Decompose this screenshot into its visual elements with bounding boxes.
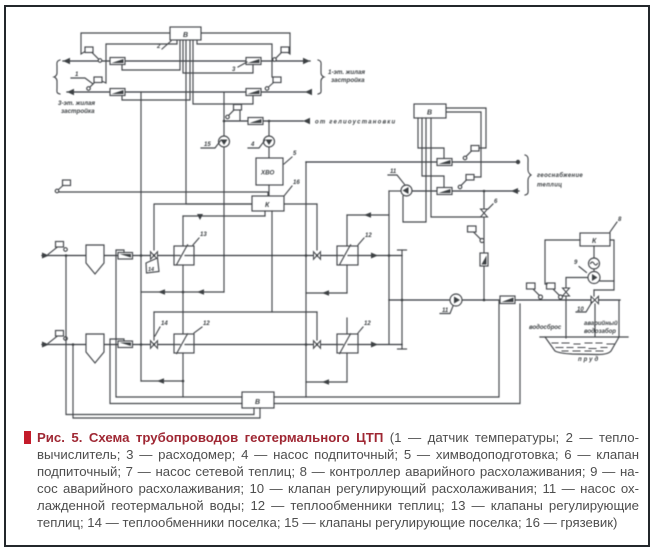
pump 11 cooled geothermal water — [450, 294, 462, 306]
svg-text:8: 8 — [618, 217, 622, 223]
pond basin with water hatching — [540, 337, 628, 355]
svg-text:3-эт. жилая: 3-эт. жилая — [58, 100, 95, 107]
wire: B1 to flowmeter F2 — [183, 40, 253, 73]
flowmeter F2 — [246, 58, 261, 65]
flowmeter F1 — [110, 58, 125, 65]
svg-text:пруд: пруд — [578, 357, 600, 363]
wire: K1 bottom to lower valve control line — [271, 211, 273, 312]
wire: E3 through stem down — [182, 292, 184, 334]
temperature sensor T1 lower-left — [87, 77, 102, 90]
wire: B2 to make-up valve 6 — [431, 118, 484, 217]
wire: control drop to valve row1 left — [153, 204, 155, 250]
brace greenhouse supply — [525, 155, 531, 195]
cap top of header — [398, 249, 407, 251]
flowmeter F9 row2 — [118, 341, 133, 348]
svg-text:1-эт. жилая: 1-эт. жилая — [328, 69, 365, 76]
svg-text:В: В — [255, 399, 260, 406]
wire: riser from B1 down to controller K1 — [186, 40, 252, 204]
heat exchanger E4 — [337, 334, 358, 354]
temperature sensor T1 lower-right — [265, 77, 281, 90]
svg-text:12: 12 — [365, 233, 372, 239]
wire: B2 to sensor on line 162 — [446, 108, 486, 148]
junction dots make-up riser — [483, 190, 486, 193]
temperature sensor T1 upper-right — [273, 47, 289, 61]
wire: E4 top stub — [346, 318, 348, 334]
wire: K2 control to valve 10 — [594, 281, 614, 290]
arrow row1 after exchangers — [371, 253, 378, 259]
wire: B2 to sensor on line 191 — [446, 112, 481, 177]
wire: B3 left to flowmeter F9 — [110, 339, 242, 404]
controller K1 — [252, 196, 284, 211]
node: supply line end dot — [516, 160, 520, 164]
svg-text:11: 11 — [390, 169, 397, 175]
wire: drop pipe to pond right — [618, 300, 620, 337]
arrow return row1 b — [197, 289, 204, 295]
arrow greenhouse return — [511, 188, 518, 194]
wire: riser to pump 4 — [268, 121, 270, 136]
flowmeter F11 discharge — [500, 296, 515, 304]
control valve 10 — [591, 290, 599, 304]
pump 9 emergency cooling — [588, 272, 600, 284]
svg-text:аварийный: аварийный — [584, 320, 618, 327]
arrow row2 after exchangers — [371, 342, 378, 348]
flowmeter F6 — [437, 159, 452, 166]
brace left town — [54, 60, 60, 94]
svg-text:застройка: застройка — [61, 108, 95, 115]
svg-text:застройка: застройка — [331, 77, 365, 84]
heat calculator B1 — [170, 27, 201, 40]
arrow E4 return — [322, 379, 329, 385]
svg-text:от гелиоустановки: от гелиоустановки — [315, 120, 396, 126]
svg-text:геоснабжение: геоснабжение — [537, 172, 583, 179]
svg-text:водосброс: водосброс — [529, 324, 562, 331]
wire: greenhouse line y=191 discharge — [412, 190, 519, 192]
wire: make-up riser x=484 — [483, 191, 485, 300]
wire: E2 return to bus — [306, 292, 347, 294]
wire: B2 to pump 11 motor — [403, 118, 426, 222]
svg-text:14: 14 — [148, 267, 154, 273]
wire: XBO to K1 — [268, 185, 270, 196]
level sensor on make-up riser — [468, 226, 485, 243]
svg-text:ХВО: ХВО — [260, 170, 274, 177]
svg-text:В: В — [183, 32, 188, 39]
arrow row1 inlet — [42, 253, 49, 259]
wire: row2 pipe y=344.5 — [42, 344, 402, 346]
wire: discharge pipe y=300 — [389, 299, 620, 301]
wire: B3 under-wire to row1 sensor — [66, 256, 254, 415]
pump 4 — [264, 136, 275, 147]
svg-text:15: 15 — [204, 142, 211, 148]
arrow return row1 a — [158, 289, 165, 295]
svg-text:9: 9 — [574, 260, 578, 266]
mud separator row2 — [86, 334, 104, 363]
wire: B2 to flowmeter F7 — [422, 118, 444, 187]
svg-text:12: 12 — [364, 321, 371, 327]
wire: return header row1 to riser — [141, 291, 224, 293]
wire: K1 control line y=204 right branch — [284, 203, 317, 205]
control valve body 14 (parallelogram) — [146, 258, 159, 273]
svg-text:12: 12 — [203, 321, 210, 327]
make-up valve 6 — [481, 209, 488, 217]
junction dots bottom — [65, 254, 68, 257]
heat calculator B2 — [414, 104, 446, 118]
arrow left end return — [67, 89, 74, 95]
wire: loop B1 to upper-right sensor — [201, 33, 290, 54]
junction make-up line / pump15 riser — [223, 120, 226, 123]
emergency suction valve — [563, 288, 570, 296]
wire: loop B1 to lower-left sensor — [102, 40, 178, 83]
flowmeter F7 — [437, 188, 452, 195]
wire: greenhouse line y=191 pump suction — [389, 190, 401, 192]
flowmeter F3 — [110, 89, 125, 96]
arrow left end supply — [63, 58, 70, 64]
temperature sensor T1 upper-left — [85, 47, 102, 62]
controller K2 emergency cooling — [580, 233, 610, 246]
wire: lower valve control line y=312 — [154, 311, 317, 313]
temperature sensor greenhouse supply — [463, 146, 479, 160]
arrow lower return — [157, 378, 164, 384]
wire: B2 to flowmeter F6 — [418, 118, 444, 158]
heat calculator B3 (bottom) — [242, 392, 274, 408]
wire: pump 9 discharge loop to K2 — [600, 240, 614, 281]
heat exchanger E3 — [174, 334, 194, 354]
wire: E4 return to bus — [306, 381, 347, 383]
wire: feed line to E2 — [347, 214, 389, 216]
wire: riser to pump 15 — [223, 92, 225, 136]
wire: K1 control line y=204 left branch — [155, 203, 252, 205]
wire: K1 bottom to exchanger feed line — [264, 211, 266, 216]
well head sensor B — [547, 283, 563, 299]
arrow row2 inlet — [42, 342, 49, 348]
wire: feed line to E1 with down arrow — [183, 215, 265, 217]
wire: B3 right to discharge pipe b — [274, 304, 520, 404]
arrow feed E2 — [364, 212, 371, 218]
wire: E2 bottom stem — [346, 265, 348, 293]
arrow from solar plant — [303, 118, 310, 124]
wire: control drop to valve row1 right — [316, 204, 318, 250]
wire: pump 9 suction — [566, 278, 588, 288]
wire: B1 to flowmeter F3 — [122, 40, 190, 100]
wire: K2 to motor — [593, 246, 595, 258]
wire: E1 bottom stem — [182, 265, 184, 292]
svg-text:3: 3 — [232, 67, 236, 73]
arrow right end return — [305, 89, 312, 95]
wire: B3 left to flowmeter F8 — [116, 250, 242, 397]
wire: pump 4 to XBO — [268, 147, 270, 158]
heat exchanger E2 — [337, 245, 358, 265]
vertical flowmeter on make-up riser — [480, 253, 488, 266]
svg-text:13: 13 — [200, 232, 207, 238]
svg-text:5: 5 — [293, 151, 297, 157]
wire: control drop valve row2 left — [153, 312, 155, 340]
svg-text:теплиц: теплиц — [537, 183, 562, 189]
valve row2 right — [314, 341, 321, 349]
wire: capped header riser x=402 — [401, 250, 403, 349]
svg-text:В: В — [427, 110, 432, 117]
temperature sensor row1 inlet — [48, 242, 67, 255]
flowmeter F5 make-up — [248, 118, 263, 125]
arrow E2 return — [322, 290, 329, 296]
svg-text:К: К — [592, 238, 597, 245]
wire: make-up line from solar plant y=121 — [224, 120, 303, 122]
wire: B1 to flowmeter F4 — [193, 40, 253, 104]
valve row2 left — [151, 341, 158, 349]
mud separator row1 — [86, 245, 104, 274]
water treatment unit XBO — [256, 158, 283, 185]
temperature sensor row2 inlet — [48, 331, 67, 344]
wire: town return pipe y=92 — [67, 91, 311, 93]
wire: K2 to well sensor — [545, 240, 580, 284]
wire: town supply pipe y=61 — [63, 60, 310, 62]
wire: E2 top stem — [346, 215, 348, 246]
wire: motor to pump 9 — [593, 269, 595, 272]
wire: loop B1 to lower-right sensor — [197, 40, 272, 77]
well head sensor A — [527, 283, 543, 299]
pump 15 — [219, 136, 230, 147]
wire: pump 15 down to return header — [223, 147, 225, 292]
brace right town — [318, 60, 324, 94]
wire: control drop valve row2 right — [316, 312, 318, 340]
wire: pump riser x=389 down through rows — [388, 191, 390, 344]
wire: long left riser x=141 — [140, 92, 142, 381]
wire: B1 to flowmeter F1 — [122, 40, 180, 70]
wire: lower return row2 — [141, 380, 183, 382]
wire: valve to discharge pipe — [565, 297, 567, 301]
wire: greenhouse supply line y=162 — [306, 161, 519, 163]
svg-text:1: 1 — [75, 72, 79, 78]
wire: drop pipe to pond middle — [594, 304, 596, 336]
svg-text:6: 6 — [494, 199, 498, 205]
temperature sensor on make-up line — [226, 105, 242, 122]
wire: row1 pipe y=255.5 — [42, 255, 402, 257]
junction dot header/discharge — [401, 299, 404, 302]
svg-text:2: 2 — [156, 44, 161, 50]
valve row1 left — [151, 252, 158, 260]
junction dots left rows — [140, 254, 143, 257]
wire: drop pipe to pond left — [565, 300, 567, 338]
wire: loop B1 to upper-left sensor — [81, 33, 170, 54]
cap bottom of header — [398, 348, 407, 350]
wire: left temperature sensor to controller K1 — [59, 192, 268, 196]
valve row1 right — [314, 252, 321, 260]
wire: main bus riser x=306 — [305, 162, 307, 397]
svg-text:4: 4 — [250, 142, 255, 148]
wire: B3 under-wire to row2 sensor — [73, 345, 260, 419]
svg-text:К: К — [265, 202, 270, 209]
svg-text:водозабор: водозабор — [584, 328, 616, 335]
temperature sensor left mid — [55, 180, 70, 193]
arrow right end supply — [303, 58, 310, 64]
heat exchanger E1 — [174, 245, 194, 265]
motor of pump 9 — [589, 258, 600, 269]
flowmeter F8 row1 — [118, 253, 133, 260]
svg-text:16: 16 — [293, 180, 300, 186]
pump 11 greenhouse network — [401, 185, 412, 196]
flowmeter F4 — [246, 89, 261, 96]
wire: E1 top stem — [182, 216, 184, 246]
wire: E4 bottom stem — [346, 353, 348, 382]
temperature sensor greenhouse return — [458, 175, 474, 189]
svg-text:14: 14 — [161, 321, 168, 327]
wire: B3 right to discharge pipe a — [274, 300, 499, 397]
